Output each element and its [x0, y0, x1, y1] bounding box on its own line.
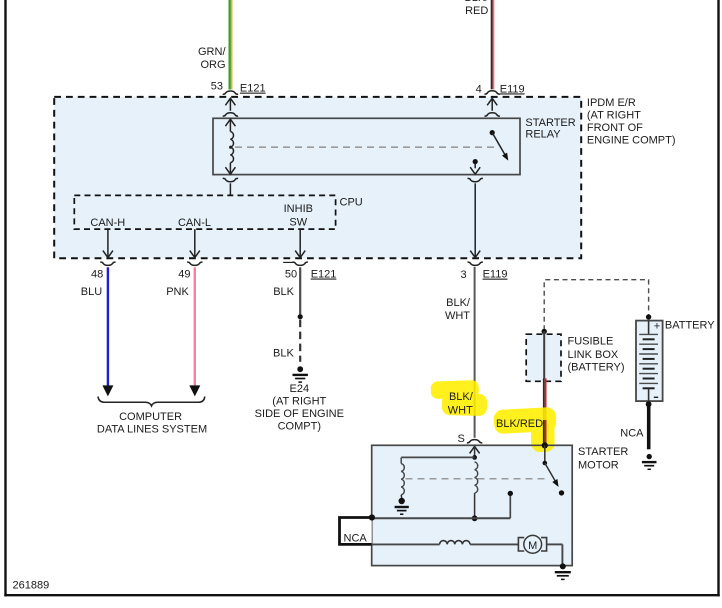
relay output wire to pin 3	[468, 178, 483, 257]
label NCA battery	[620, 427, 644, 439]
connector pin 4 E119	[476, 83, 525, 95]
wire solenoid top link	[401, 456, 474, 458]
svg-text:E121: E121	[240, 83, 266, 95]
svg-text:BLK/: BLK/	[446, 297, 471, 309]
motor M1	[518, 535, 546, 553]
wire BLK/WHT pin 3 to starter S	[474, 267, 476, 438]
wire BLK/RED pin 4	[491, 0, 495, 89]
CPU output arrow CAN-L	[190, 229, 200, 258]
label STARTER RELAY	[525, 117, 575, 140]
label BLU	[81, 286, 102, 298]
svg-text:CAN-H: CAN-H	[90, 217, 125, 229]
junction battery negative	[646, 401, 652, 407]
svg-text:NCA: NCA	[344, 532, 368, 544]
CPU output arrow INHIB SW	[295, 229, 305, 258]
fusible link box	[526, 334, 561, 381]
svg-text:49: 49	[178, 268, 190, 280]
ground E24	[293, 366, 308, 382]
wire BLK/RED fusible to starter	[543, 378, 547, 445]
svg-text:RED: RED	[465, 5, 488, 17]
wire fusible link	[543, 331, 545, 378]
label INHIB SW	[284, 203, 313, 229]
svg-text:ENGINE COMPT): ENGINE COMPT)	[587, 135, 676, 147]
label BLK/WHT highlighted	[448, 391, 474, 416]
CPU output arrow CAN-H	[103, 229, 113, 258]
svg-text:(AT RIGHT: (AT RIGHT	[272, 396, 326, 408]
pin 4 entry arrow	[485, 98, 500, 116]
highlight yellow BLK/WHT	[431, 380, 488, 416]
terminal S connector	[458, 433, 483, 445]
svg-text:COMPT): COMPT)	[278, 421, 321, 433]
wire PNK pin 49	[189, 267, 200, 396]
label BLK/RED highlighted	[496, 418, 543, 430]
svg-text:BLK/: BLK/	[464, 0, 489, 4]
svg-text:(AT RIGHT: (AT RIGHT	[587, 109, 641, 121]
svg-text:BLK: BLK	[273, 286, 294, 298]
wire motor bus	[372, 543, 440, 545]
splice junction on BLK	[298, 314, 303, 319]
NCA box	[340, 518, 372, 545]
label COMPUTER DATA LINES SYSTEM	[97, 411, 207, 436]
border frame right	[717, 0, 719, 596]
svg-text:4: 4	[476, 83, 482, 95]
connector pin 48 E121	[91, 262, 116, 280]
pull-in coil	[475, 462, 478, 516]
svg-text:53: 53	[211, 80, 223, 92]
starter relay box	[213, 118, 520, 174]
diagram id 261889	[13, 579, 50, 591]
border frame left	[4, 0, 6, 596]
starter actuation dashed line	[406, 478, 546, 480]
label CAN-L	[178, 217, 211, 229]
svg-text:BLU: BLU	[81, 286, 102, 298]
starter S terminal arrow	[470, 446, 480, 456]
svg-text:IPDM E/R: IPDM E/R	[587, 97, 636, 109]
svg-text:BLK/RED: BLK/RED	[496, 418, 543, 430]
hold-in coil	[401, 457, 404, 498]
svg-text:E119: E119	[483, 269, 508, 281]
wire BLK dashed to E24	[299, 320, 301, 362]
svg-text:48: 48	[91, 268, 103, 280]
wire inductor to motor	[470, 543, 518, 545]
svg-text:E119: E119	[500, 83, 525, 95]
relay actuation dashed line	[235, 146, 497, 148]
dashed wire battery positive link	[544, 280, 648, 331]
wire solenoid bus	[373, 496, 511, 519]
svg-text:WHT: WHT	[448, 404, 473, 416]
label STARTER MOTOR	[578, 446, 628, 472]
IPDM E/R module box	[54, 97, 581, 258]
svg-text:WHT: WHT	[445, 310, 470, 322]
svg-text:GRN/: GRN/	[198, 46, 226, 58]
contact main switch lower	[508, 491, 513, 496]
starter motor box	[372, 445, 573, 565]
svg-text:STARTER: STARTER	[578, 446, 628, 458]
svg-text:PNK: PNK	[166, 286, 189, 298]
brace computer data lines	[98, 397, 205, 406]
svg-text:CAN-L: CAN-L	[178, 217, 211, 229]
label FUSIBLE LINK BOX (BATTERY)	[568, 336, 625, 374]
relay output connector to CPU	[223, 178, 238, 195]
label BLK/RED top	[464, 0, 489, 17]
CPU box	[74, 195, 362, 229]
relay switch	[470, 130, 508, 174]
ground starter motor	[555, 563, 571, 579]
label GRN/ORG	[198, 46, 226, 71]
svg-text:STARTER: STARTER	[525, 117, 575, 129]
svg-text:CPU: CPU	[340, 196, 363, 208]
wire motor to ground	[547, 544, 563, 565]
svg-text:S: S	[458, 433, 465, 445]
svg-text:DATA LINES SYSTEM: DATA LINES SYSTEM	[97, 423, 207, 435]
svg-text:FUSIBLE: FUSIBLE	[568, 336, 614, 348]
label PNK	[166, 286, 189, 298]
connector pin 49 E121	[178, 262, 202, 280]
ground hold-in coil	[395, 498, 409, 514]
connector pin 50 E121	[283, 262, 336, 280]
svg-text:BLK/: BLK/	[449, 391, 474, 403]
wire BLU pin 48	[102, 267, 113, 396]
connector pin 3 E119	[460, 262, 507, 281]
svg-text:M: M	[528, 540, 537, 552]
svg-text:261889: 261889	[13, 579, 50, 591]
label E24	[255, 383, 344, 433]
svg-text:ORG: ORG	[200, 59, 225, 71]
svg-text:+: +	[654, 320, 660, 332]
svg-text:3: 3	[460, 269, 466, 281]
junction solenoid top	[472, 455, 477, 460]
label IPDM E/R	[587, 97, 676, 147]
relay coil	[225, 119, 235, 174]
svg-text:RELAY: RELAY	[525, 128, 561, 140]
svg-text:(BATTERY): (BATTERY)	[568, 361, 625, 373]
wire GRN/ORG pin 53	[229, 0, 233, 90]
pin 53 entry arrow	[223, 98, 238, 116]
label BLK lower	[273, 347, 294, 359]
border frame bottom	[4, 594, 719, 596]
svg-text:50: 50	[285, 268, 297, 280]
battery	[636, 320, 663, 401]
connector pin 53 E121	[211, 80, 266, 94]
label CAN-H	[90, 217, 125, 229]
junction NCA box top	[369, 514, 375, 520]
svg-text:LINK BOX: LINK BOX	[568, 349, 619, 361]
svg-text:SW: SW	[289, 216, 307, 228]
junction pull-in coil bottom	[472, 515, 478, 521]
starter switch	[543, 445, 565, 495]
label BLK/WHT upper	[445, 297, 471, 322]
svg-text:COMPUTER: COMPUTER	[119, 411, 182, 423]
junction BLK/RED at starter box	[542, 442, 548, 448]
svg-text:SIDE OF ENGINE: SIDE OF ENGINE	[255, 408, 344, 420]
label BATTERY	[665, 320, 715, 332]
junction battery positive	[646, 314, 651, 319]
ground battery negative	[642, 454, 657, 469]
svg-text:BATTERY: BATTERY	[665, 320, 715, 332]
svg-text:FRONT OF: FRONT OF	[587, 122, 643, 134]
junction fusible link top	[542, 329, 547, 334]
svg-text:BLK: BLK	[273, 347, 294, 359]
svg-text:E121: E121	[311, 269, 337, 281]
svg-text:NCA: NCA	[620, 427, 644, 439]
svg-text:MOTOR: MOTOR	[578, 460, 619, 472]
highlight yellow BLK/RED	[493, 407, 556, 452]
svg-text:INHIB: INHIB	[284, 203, 313, 215]
wire BLK pin 50	[299, 267, 301, 314]
svg-text:E24: E24	[290, 383, 310, 395]
armature inductor	[440, 541, 470, 545]
wire battery negative NCA	[647, 406, 651, 449]
label BLK upper	[273, 286, 294, 298]
